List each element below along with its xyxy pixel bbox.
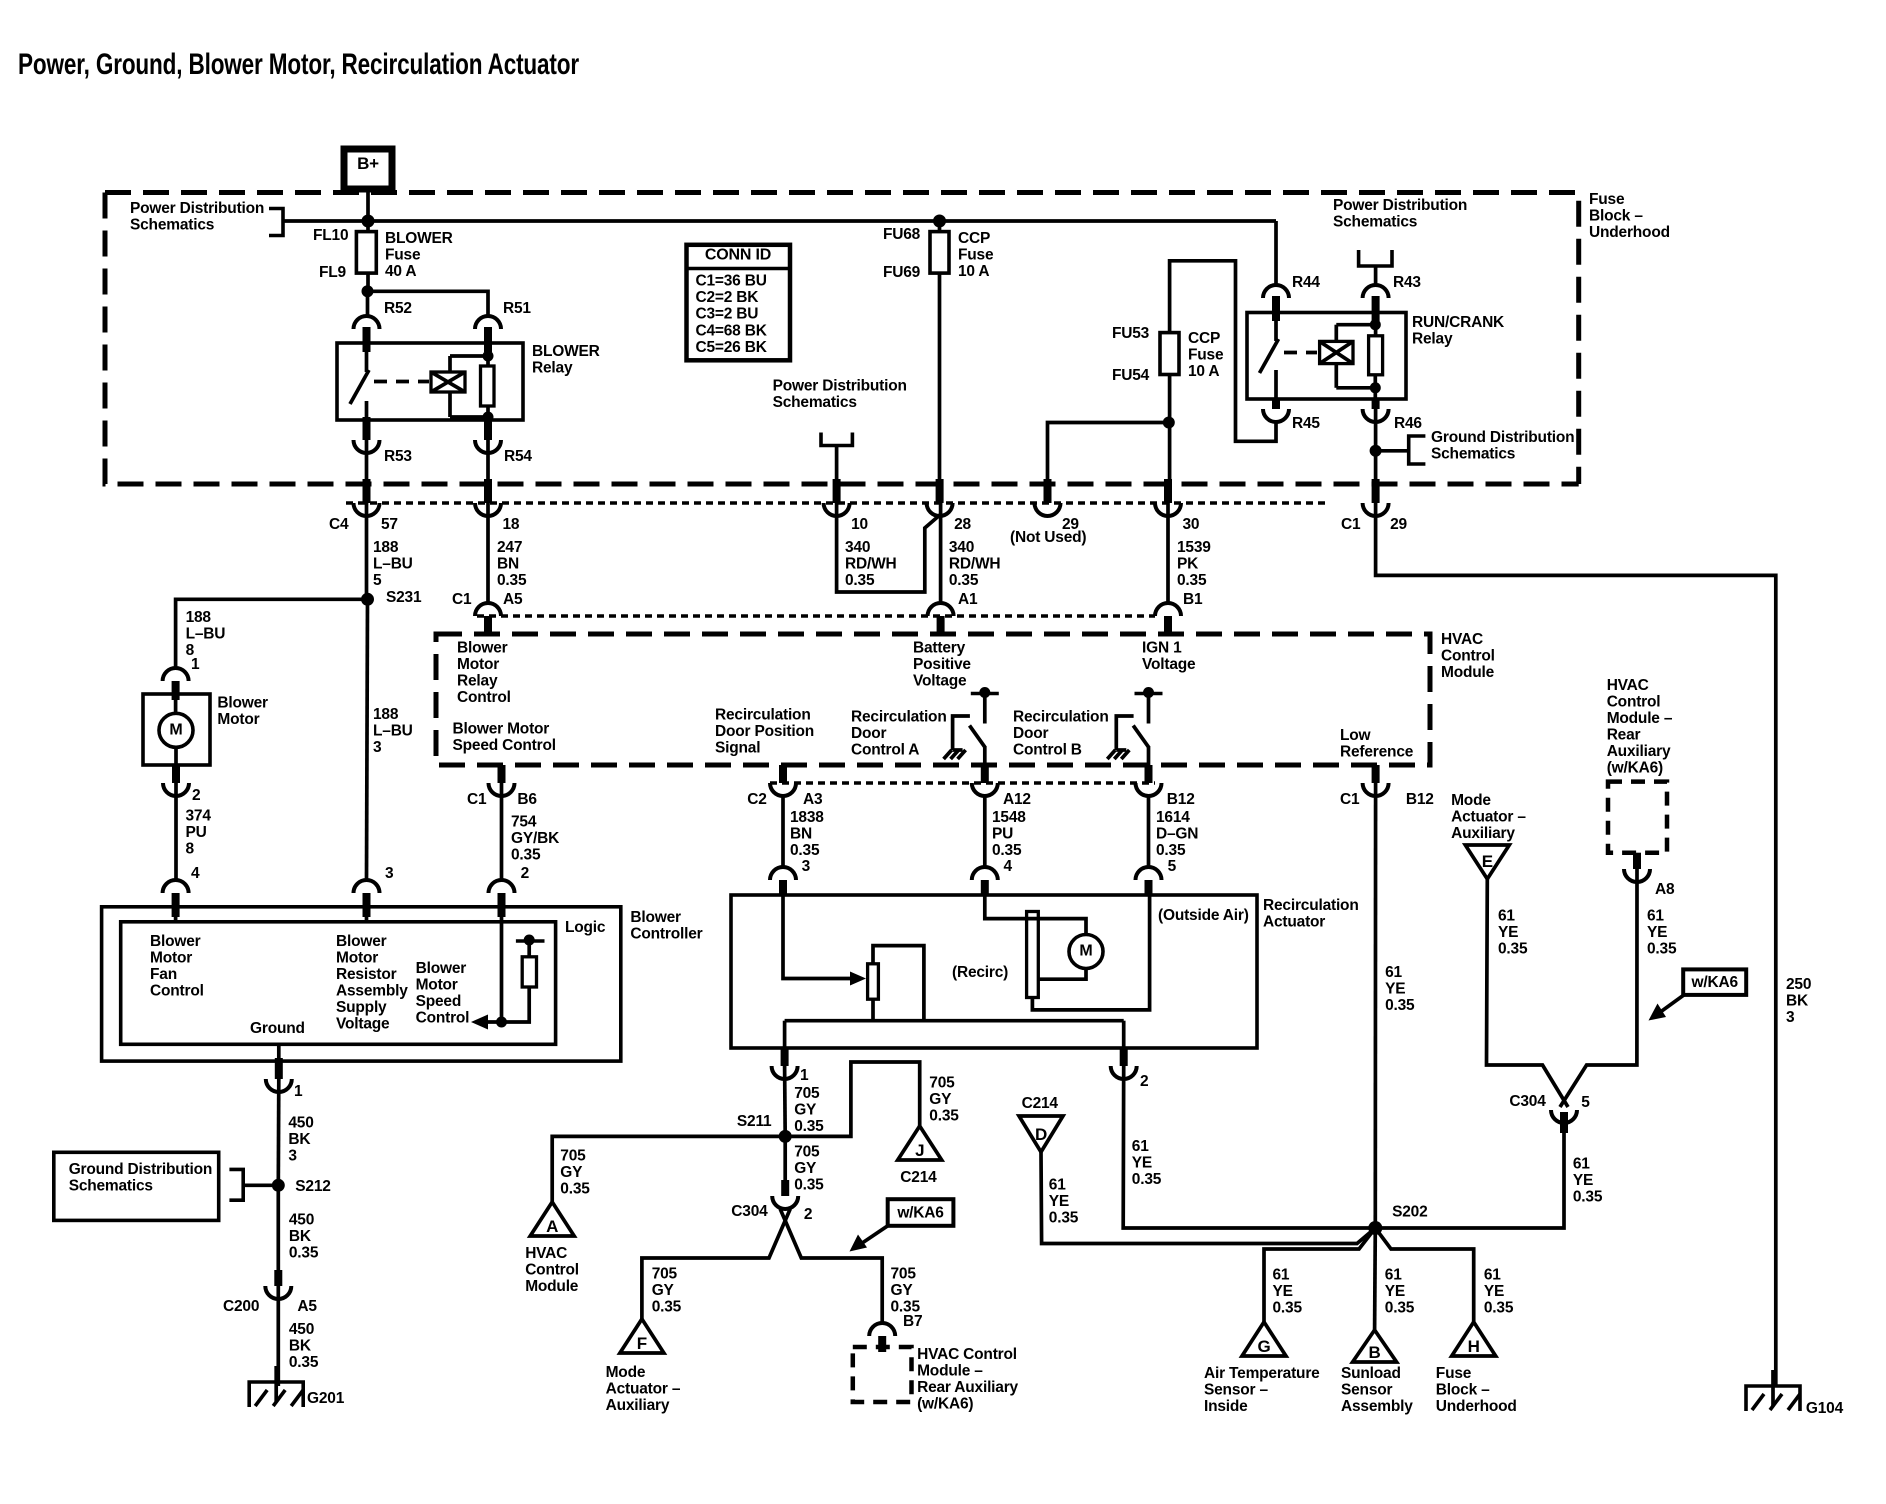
C304 split wires [642,1209,882,1322]
recirc pin2 stub [1122,1021,1126,1048]
svg-text:A12: A12 [1003,791,1031,808]
svg-text:C304: C304 [731,1203,768,1220]
svg-text:188: 188 [186,609,212,626]
svg-text:Recirculation: Recirculation [1263,897,1359,914]
HVAC internal switch door control A [944,687,999,765]
wire label 450 BK 0.35 (upper) [278,1185,319,1270]
Blower Controller outer box [102,907,621,1061]
svg-text:Blower Motor: Blower Motor [453,721,550,738]
svg-text:Blower: Blower [416,960,467,977]
svg-text:FU68: FU68 [883,226,921,243]
svg-text:Fuse: Fuse [958,247,994,264]
label Mode Actuator - Auxiliary (E) [1451,792,1526,842]
connector pin A1 [928,591,978,636]
svg-text:10: 10 [851,516,868,533]
connector pin A12 [972,765,1031,808]
svg-text:Fan: Fan [150,966,177,983]
label HVAC Control Module Rear Auxiliary w/KA6 (top right) [1607,677,1673,777]
wire label 188 L-BU 8 pin 1 [186,609,226,673]
junction ground distribution [1370,445,1382,457]
svg-text:10 A: 10 A [958,263,989,280]
svg-text:FL10: FL10 [313,227,348,244]
label CCP Fuse 10 A (FU68) [958,230,994,280]
label FL9 [319,264,347,281]
connector blower motor pin 2 [163,765,200,804]
svg-text:HVAC: HVAC [1441,631,1483,648]
svg-text:0.35: 0.35 [1385,997,1415,1014]
blower motor M [159,700,193,765]
svg-text:D–GN: D–GN [1156,826,1198,843]
svg-text:R53: R53 [384,448,412,465]
svg-text:Blower: Blower [630,909,681,926]
svg-text:Module –: Module – [1607,710,1673,727]
run/crank relay resistor [1369,321,1383,399]
wire label 374 PU 8 [176,783,211,879]
svg-text:Door Position: Door Position [715,723,814,740]
svg-text:F: F [637,1334,647,1353]
svg-text:0.35: 0.35 [1647,941,1677,958]
fuse BLOWER 40A (FL10/FL9) [356,232,376,274]
svg-text:Power Distribution: Power Distribution [773,378,907,395]
svg-text:0.35: 0.35 [1132,1171,1162,1188]
svg-text:S202: S202 [1392,1204,1427,1221]
svg-text:M: M [1079,943,1092,960]
wire R46 down [1374,409,1378,480]
svg-text:Air Temperature: Air Temperature [1204,1365,1320,1382]
wire R45 loop to FU53 [1170,261,1276,442]
ground G201 [249,1366,344,1407]
wire label 1838 BN 0.35 3 [783,796,824,875]
junction FU54 branch [1163,417,1175,429]
svg-text:Control: Control [416,1010,470,1027]
svg-text:YE: YE [1498,924,1518,941]
connector R52 [354,300,412,352]
HVAC internal switch door control B [1107,687,1162,765]
svg-text:A3: A3 [803,791,823,808]
connector row A1/B1 dotted line [477,614,1155,618]
bracket ground distribution [229,1169,272,1200]
connector C4 pin 57 [329,479,398,533]
svg-text:YE: YE [1049,1193,1069,1210]
svg-text:Fuse: Fuse [385,247,421,264]
svg-text:Fuse: Fuse [1436,1365,1472,1382]
connector recirc pin (A12 wire) [972,867,998,896]
svg-text:Recirculation: Recirculation [851,709,947,726]
wire label 1614 D-GN 0.35 5 [1149,796,1199,875]
recirc pot bottom wire [871,999,875,1021]
label Logic [565,919,606,936]
svg-text:Module –: Module – [917,1363,983,1380]
svg-text:L–BU: L–BU [373,556,413,573]
svg-text:Power Distribution: Power Distribution [1333,197,1467,214]
svg-text:C1: C1 [1340,791,1360,808]
svg-text:Ground Distribution: Ground Distribution [1431,429,1574,446]
svg-text:2: 2 [804,1206,812,1223]
svg-text:Controller: Controller [630,926,702,943]
bracket to ground distribution (right) [1376,436,1426,464]
label Mode Actuator - Auxiliary (F) [606,1364,681,1414]
recirc motor feed wire [985,895,1086,935]
svg-text:Control: Control [525,1262,579,1279]
wire label 1539 PK 0.35 [1168,503,1211,603]
recirc bottom bus wire [785,1019,1124,1023]
svg-text:PK: PK [1177,556,1199,573]
label Recirculation Door Control B [1013,709,1109,759]
svg-text:61: 61 [1573,1156,1590,1173]
recirc motor M [1069,935,1103,969]
svg-text:1548: 1548 [992,809,1026,826]
blower relay coil [431,356,488,417]
svg-text:0.35: 0.35 [1498,941,1528,958]
connector C2 pin A3 [747,765,823,808]
connector R46 [1363,399,1423,432]
svg-text:1614: 1614 [1156,809,1190,826]
label Blower Motor Speed Control (logic) [416,960,470,1027]
svg-text:HVAC: HVAC [525,1245,567,1262]
relay box BLOWER Relay [337,343,523,420]
junction below blower fuse [362,285,374,297]
svg-text:340: 340 [949,539,974,556]
svg-text:754: 754 [511,814,537,831]
svg-text:FU69: FU69 [883,264,921,281]
svg-text:Motor: Motor [416,977,458,994]
connector row A3/A12/B12 dotted line [770,781,1155,785]
svg-text:Ground: Ground [250,1020,305,1037]
svg-text:5: 5 [1168,858,1177,875]
svg-text:Control: Control [1607,694,1661,711]
fuse CCP 10A (FU53/FU54) [1160,333,1179,375]
svg-text:0.35: 0.35 [929,1108,959,1125]
label FU69 [883,264,921,281]
svg-text:BK: BK [289,1338,312,1355]
svg-text:Power, Ground, Blower Motor, R: Power, Ground, Blower Motor, Recirculati… [18,48,580,81]
svg-text:188: 188 [373,539,399,556]
label Blower Motor [217,695,268,729]
svg-text:Sensor –: Sensor – [1204,1382,1268,1399]
svg-text:Reference: Reference [1340,744,1414,761]
junction S211 [737,1113,792,1143]
svg-text:Motor: Motor [150,950,192,967]
svg-text:(Recirc): (Recirc) [952,964,1008,981]
svg-text:HVAC Control: HVAC Control [917,1346,1017,1363]
wire junction to R52 [366,291,370,316]
svg-text:0.35: 0.35 [794,1177,824,1194]
CONN ID table [687,245,791,360]
svg-text:0.35: 0.35 [497,572,527,589]
Ground Distribution Schematics box [54,1152,219,1220]
label Fuse Block - Underhood (H) [1436,1365,1517,1415]
svg-text:Rear Auxiliary: Rear Auxiliary [917,1379,1018,1396]
svg-text:Blower: Blower [336,933,387,950]
svg-text:61: 61 [1132,1138,1149,1155]
run/crank relay switch [1260,321,1279,399]
svg-text:0.35: 0.35 [794,1118,824,1135]
label HVAC Control Module (A) [525,1245,579,1295]
svg-text:BK: BK [288,1131,311,1148]
svg-text:C3=2 BU: C3=2 BU [696,306,759,323]
wire label 705 GY 0.35 (pin1) [794,1085,824,1135]
label Power Distribution Schematics (middle) [773,378,907,412]
wire label 247 BN 0.35 [488,503,527,603]
svg-text:374: 374 [186,808,212,825]
svg-text:Module: Module [525,1278,579,1295]
connector D triangle [1019,1116,1063,1152]
wire label 61 YE 0.35 (D branch) [1049,1177,1079,1227]
connector pin B7 [869,1323,895,1352]
svg-text:C4: C4 [329,516,349,533]
svg-text:(Outside Air): (Outside Air) [1158,907,1249,924]
power symbol B+ [344,149,392,189]
label Ground Distribution Schematics (right) [1431,429,1574,463]
connector A triangle [530,1202,574,1236]
wire label 754 GY/BK 0.35 [502,783,561,879]
bracket to power distribution (left) [269,209,283,236]
svg-text:B12: B12 [1406,791,1434,808]
wire label 705 GY 0.35 (J branch) [929,1075,959,1125]
svg-text:E: E [1482,852,1493,871]
fuse block underhood dashed outline [105,193,1579,485]
svg-text:Sensor: Sensor [1341,1382,1393,1399]
svg-text:C1=36 BU: C1=36 BU [696,273,767,290]
svg-text:450: 450 [288,1115,313,1132]
connector C4 pin 18 [475,479,520,533]
svg-text:B: B [1369,1343,1381,1362]
svg-text:Relay: Relay [532,360,573,377]
svg-text:A5: A5 [297,1298,317,1315]
svg-text:IGN 1: IGN 1 [1142,640,1182,657]
wire label 61 YE 0.35 (H) [1484,1267,1514,1317]
svg-text:61: 61 [1498,908,1515,925]
svg-text:HVAC: HVAC [1607,677,1649,694]
svg-text:Block –: Block – [1589,208,1643,225]
svg-text:Power Distribution: Power Distribution [130,200,264,217]
wire bus corner to R44 [1274,221,1278,285]
svg-text:Control: Control [1441,648,1495,665]
connector C304 pin 2 [731,1180,812,1223]
svg-text:H: H [1468,1337,1480,1356]
svg-text:C214: C214 [900,1169,937,1186]
connector row C4 dotted line [346,501,1328,505]
svg-text:61: 61 [1484,1267,1501,1284]
svg-text:450: 450 [289,1321,314,1338]
svg-text:61: 61 [1385,1267,1402,1284]
svg-text:Logic: Logic [565,919,606,936]
logic speed control resistor [471,935,545,1030]
connector R54 [475,417,532,465]
recirc potentiometer [868,964,879,999]
svg-text:0.35: 0.35 [1385,1300,1415,1317]
label B7 [903,1313,922,1330]
svg-text:BLOWER: BLOWER [532,343,600,360]
wire E to C304-5 [1487,879,1569,1107]
svg-text:C1: C1 [1341,516,1361,533]
svg-text:GY: GY [891,1282,914,1299]
svg-text:BLOWER: BLOWER [385,230,453,247]
svg-text:57: 57 [381,516,398,533]
svg-text:247: 247 [497,539,522,556]
svg-text:2: 2 [1140,1073,1148,1090]
wire bracket to R43 [1374,266,1378,285]
svg-text:Assembly: Assembly [1341,1398,1413,1415]
svg-text:Positive: Positive [913,656,971,673]
recirc wiper feed wire with arrow [783,895,866,986]
svg-text:M: M [169,721,182,738]
label FL10 [313,227,348,244]
svg-text:RUN/CRANK: RUN/CRANK [1412,314,1505,331]
svg-text:A5: A5 [503,591,523,608]
svg-text:CCP: CCP [958,230,990,247]
recirc pot top loop wire [873,946,924,1021]
label Blower Motor Relay Control [457,640,511,707]
bracket to power distribution (middle) [821,433,852,446]
svg-text:FU53: FU53 [1112,325,1150,342]
connector pin 28 [927,479,972,533]
svg-text:Blower: Blower [457,640,508,657]
svg-text:Supply: Supply [336,999,387,1016]
run/crank relay actuation dashes [1284,351,1317,355]
connector C1 pin B12 low reference [1340,765,1434,808]
connector R51 [475,300,531,352]
svg-text:30: 30 [1183,516,1200,533]
svg-text:Schematics: Schematics [69,1178,153,1195]
svg-text:450: 450 [289,1212,314,1229]
wire FU54 to pin 30 [1168,375,1172,481]
svg-text:Underhood: Underhood [1589,224,1670,241]
label HVAC Control Module [1441,631,1495,681]
svg-text:B7: B7 [903,1313,922,1330]
svg-text:GY: GY [560,1164,583,1181]
svg-text:8: 8 [186,841,195,858]
svg-text:Fuse: Fuse [1188,347,1224,364]
wire S211 down to C304 [783,1136,787,1183]
svg-text:BK: BK [1786,993,1809,1010]
svg-text:Voltage: Voltage [336,1016,390,1033]
label Recirculation Door Position Signal [715,707,814,757]
svg-text:Speed Control: Speed Control [453,737,556,754]
svg-text:0.35: 0.35 [845,572,875,589]
svg-text:Recirculation: Recirculation [715,707,811,724]
svg-text:B6: B6 [517,791,537,808]
svg-text:Motor: Motor [336,950,378,967]
wire label 61 YE 0.35 (B) [1385,1267,1415,1317]
wire 29 to G104 run [1376,503,1776,1386]
svg-text:3: 3 [288,1148,297,1165]
ground G104 [1746,1370,1844,1417]
junction coil top [483,351,494,362]
wire S211 to J triangle [785,1062,920,1136]
wire S231 to controller pin 3 [367,599,368,879]
junction run/crank coil top [1370,319,1381,330]
svg-text:(w/KA6): (w/KA6) [1607,760,1663,777]
svg-text:G104: G104 [1806,1400,1844,1417]
wire label 61 YE 0.35 (pin2) [1132,1138,1162,1188]
wire bus to FL10 [366,221,370,232]
connector controller pin 2 [489,865,530,917]
svg-text:3: 3 [1786,1009,1795,1026]
svg-text:C214: C214 [1022,1095,1059,1112]
svg-text:R43: R43 [1393,274,1421,291]
svg-text:3: 3 [385,865,394,882]
wire R53 to C4 [365,440,369,480]
svg-text:Blower: Blower [150,933,201,950]
Blower Controller logic box [121,922,556,1045]
svg-text:Speed: Speed [416,993,462,1010]
svg-text:705: 705 [929,1075,955,1092]
label Recirculation Door Control A [851,709,947,759]
svg-text:RD/WH: RD/WH [845,556,897,573]
svg-text:0.35: 0.35 [790,842,820,859]
svg-text:340: 340 [845,539,870,556]
svg-text:61: 61 [1273,1267,1290,1284]
svg-text:0.35: 0.35 [1573,1189,1603,1206]
label Blower Motor Resistor Assembly Supply Voltage [336,933,408,1033]
wire recirc pin1 to S211 [783,1066,787,1136]
label Sunload Sensor Assembly [1341,1365,1413,1415]
label Blower Controller [630,909,702,943]
svg-text:Door: Door [851,725,887,742]
svg-text:Fuse: Fuse [1589,191,1625,208]
svg-text:18: 18 [503,516,520,533]
wire low reference to S202 [1373,783,1377,1228]
wire label 450 BK 3 [278,1079,313,1185]
fuse CCP 10A (FU68/FU69) [930,232,949,274]
svg-text:Motor: Motor [217,711,259,728]
junction S212 [272,1178,331,1195]
w/KA6 tag (C304-2) [850,1199,954,1251]
svg-text:Auxiliary: Auxiliary [1451,825,1515,842]
svg-text:GY: GY [794,1160,817,1177]
HVAC Control Module dashed box [436,634,1430,765]
label Low Reference [1340,727,1414,761]
svg-text:YE: YE [1132,1155,1152,1172]
bracket to power distribution (R43) [1359,250,1392,266]
svg-text:GY: GY [794,1102,817,1119]
wire label 1548 PU 0.35 4 [985,796,1026,875]
svg-text:705: 705 [794,1085,820,1102]
svg-text:PU: PU [992,826,1013,843]
wire label 250 BK 3 [1786,976,1811,1026]
svg-text:29: 29 [1390,516,1407,533]
svg-text:Door: Door [1013,725,1049,742]
connector controller pin 3 [354,865,395,923]
connector C200 pin A5 [223,1270,317,1315]
connector E triangle [1465,845,1509,879]
svg-text:Actuator –: Actuator – [1451,809,1526,826]
label (Recirc) [952,964,1008,981]
svg-text:G201: G201 [307,1390,345,1407]
connector recirc pin (B12 wire) [1136,867,1162,896]
svg-text:Relay: Relay [1412,331,1453,348]
connector R44 [1263,274,1320,321]
connector controller pin 4 [163,865,200,923]
svg-text:S211: S211 [737,1113,772,1130]
svg-text:1838: 1838 [790,809,824,826]
wire D to S202 [1041,1152,1375,1244]
svg-text:GY: GY [652,1282,675,1299]
svg-text:PU: PU [186,824,207,841]
wire label 705 GY 0.35 (F branch) [652,1266,682,1316]
connector B triangle [1353,1330,1397,1362]
connector R53 [354,417,413,465]
connector blower motor pin 1 [163,668,189,700]
svg-text:Blower: Blower [217,695,268,712]
junction S231 [361,589,422,606]
svg-text:A: A [546,1217,558,1236]
svg-text:Module: Module [1441,664,1495,681]
svg-text:Block –: Block – [1436,1382,1490,1399]
label Air Temperature Sensor - Inside [1204,1365,1320,1415]
svg-text:(Not Used): (Not Used) [1010,529,1086,546]
